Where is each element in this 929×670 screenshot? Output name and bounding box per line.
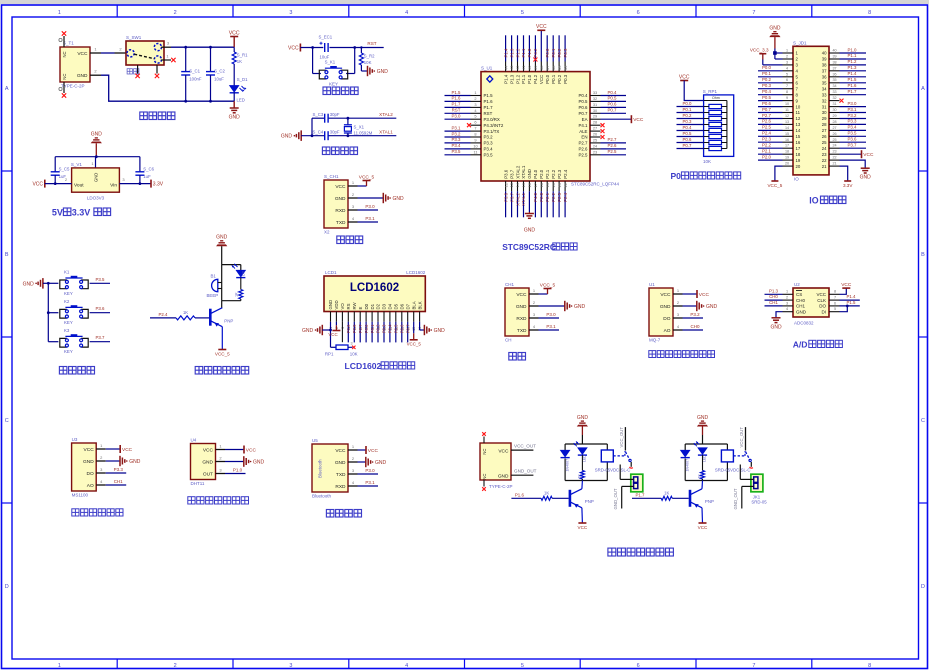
svg-text:3: 3 [289, 10, 292, 16]
svg-text:P0.0: P0.0 [364, 324, 369, 333]
svg-text:36: 36 [551, 66, 556, 70]
pin JD1.12 stub [783, 114, 794, 119]
pin U2.7 CLK wire net P1.4 [829, 294, 860, 300]
svg-text:5: 5 [834, 307, 836, 311]
pin LCD1.3 VO [340, 303, 345, 329]
pin U2.2 CH0 wire net CH0 [765, 294, 794, 300]
ground GND io pin22 [840, 160, 872, 181]
svg-text:B: B [921, 252, 925, 258]
wire net P1.1 io right [840, 53, 867, 59]
svg-text:P3.6: P3.6 [95, 306, 105, 311]
pin U1.40 P1.0 top [527, 35, 532, 84]
power VCC ldo input [32, 180, 44, 188]
svg-text:S_RP1: S_RP1 [703, 89, 718, 94]
svg-text:P1.0: P1.0 [527, 48, 532, 57]
no-ERC mark P4.2 [533, 58, 537, 62]
svg-text:P0.0: P0.0 [762, 65, 772, 70]
svg-text:32: 32 [832, 96, 836, 100]
pin JD1.18 stub [783, 150, 794, 155]
wire net P2.4 io left [758, 131, 783, 137]
svg-text:29: 29 [832, 114, 836, 118]
svg-text:XTAL2: XTAL2 [515, 165, 520, 179]
svg-text:LCD1602: LCD1602 [406, 270, 426, 275]
svg-text:RST: RST [452, 108, 461, 113]
pin U1.35 P0.2 top [557, 35, 562, 84]
svg-text:P0.1: P0.1 [682, 107, 692, 112]
svg-text:P4.1: P4.1 [578, 123, 588, 128]
svg-text:P2.0: P2.0 [539, 169, 544, 179]
wire net P0.5 to RP1 [677, 131, 704, 137]
relay contact and VCC_OUT [613, 427, 633, 469]
svg-text:P1.3: P1.3 [509, 74, 514, 84]
capacitor S_C1 100nF [181, 47, 202, 101]
svg-text:25: 25 [832, 138, 836, 142]
svg-text:P3.3: P3.3 [451, 137, 461, 142]
wire net P0.7 io left [758, 107, 783, 113]
svg-text:P2.7: P2.7 [358, 324, 363, 333]
wire net P2.2 io left [758, 143, 783, 149]
regulator S_V1 LDO3V3 [71, 162, 119, 201]
svg-text:8: 8 [868, 10, 871, 16]
svg-text:VCC: VCC [246, 448, 257, 454]
svg-text:DO: DO [819, 304, 826, 309]
pin JD1.35 stub [829, 78, 840, 83]
svg-text:S_C3: S_C3 [313, 112, 324, 117]
pin U1.22 P2.4 bottom [563, 169, 568, 217]
svg-text:P0.1: P0.1 [551, 48, 556, 57]
pin U1.31 P0.6 [578, 102, 626, 110]
svg-text:39: 39 [822, 57, 827, 62]
wire crystal bottom rail XTAL1 [301, 129, 396, 137]
svg-text:P2.5: P2.5 [607, 149, 617, 154]
svg-text:VCC: VCC [536, 24, 547, 30]
svg-text:2: 2 [474, 96, 476, 101]
svg-text:Vout: Vout [74, 182, 84, 188]
svg-text:CH1: CH1 [796, 304, 805, 309]
svg-text:P3.4: P3.4 [484, 147, 494, 152]
svg-text:LED: LED [237, 98, 245, 103]
svg-text:3.3V: 3.3V [72, 208, 91, 218]
svg-text:6: 6 [637, 663, 640, 669]
svg-text:P1.2: P1.2 [515, 74, 520, 84]
svg-text:1N4007: 1N4007 [566, 459, 570, 472]
svg-text:6: 6 [834, 301, 836, 305]
svg-text:P0.3: P0.3 [563, 48, 568, 57]
svg-text:XTAL1: XTAL1 [379, 129, 393, 134]
svg-text:DO: DO [86, 471, 93, 477]
svg-text:VCC: VCC [660, 292, 671, 298]
svg-text:K1: K1 [64, 270, 70, 275]
svg-text:B1: B1 [211, 273, 217, 278]
title relay control circuit [608, 548, 674, 556]
svg-text:25: 25 [822, 140, 827, 145]
svg-text:P4.2: P4.2 [533, 74, 538, 84]
svg-text:LDO3V3: LDO3V3 [87, 196, 105, 201]
power VCC lcd pin2 [328, 322, 340, 337]
svg-text:P3.3: P3.3 [484, 141, 494, 146]
pin JD1.19 stub [783, 156, 794, 161]
svg-text:PNP: PNP [585, 499, 594, 504]
svg-text:RW: RW [352, 301, 357, 309]
pin JD1.37 stub [829, 66, 840, 71]
svg-text:21: 21 [822, 164, 827, 169]
svg-text:S_D1: S_D1 [237, 77, 248, 82]
svg-text:P0.6: P0.6 [682, 137, 692, 142]
pin LCD1.5 RW [352, 301, 357, 342]
svg-text:33: 33 [822, 92, 827, 97]
svg-text:13: 13 [509, 183, 514, 187]
pin LCD1.16 BLK [417, 301, 422, 331]
svg-text:1K: 1K [698, 474, 702, 479]
svg-text:P1.4: P1.4 [503, 48, 508, 57]
svg-text:SRD-05VDC-SL-C: SRD-05VDC-SL-C [715, 467, 751, 472]
svg-text:IO: IO [809, 196, 818, 206]
svg-text:P2.3: P2.3 [557, 192, 562, 201]
svg-text:7: 7 [474, 126, 476, 131]
svg-text:30pF: 30pF [330, 112, 340, 117]
svg-text:P2.2: P2.2 [551, 192, 556, 201]
svg-text:P3.1: P3.1 [546, 324, 556, 329]
svg-text:D5: D5 [394, 303, 399, 309]
svg-text:13: 13 [796, 122, 801, 127]
wire net P1.5 io right [840, 77, 867, 83]
pin LCD1.14 D7 [405, 303, 410, 342]
pin LCD1.15 BLA [411, 301, 416, 331]
wire net P0.3 to RP1 [677, 119, 704, 125]
svg-text:P1.5: P1.5 [451, 90, 461, 95]
svg-text:P0.0: P0.0 [545, 48, 550, 57]
svg-text:TXD: TXD [336, 220, 346, 226]
svg-text:VCC: VCC [863, 152, 874, 158]
svg-text:VCC: VCC [816, 292, 826, 297]
svg-text:10: 10 [796, 104, 801, 109]
svg-text:19: 19 [796, 158, 801, 163]
wire net P1.2 io right [840, 59, 867, 65]
svg-text:VCC_OUT: VCC_OUT [739, 427, 744, 448]
pin JD1.17 stub [783, 144, 794, 149]
wire net P0.7 to RP1 [677, 143, 704, 149]
svg-text:S_R1: S_R1 [237, 53, 248, 58]
svg-text:RST: RST [367, 41, 376, 46]
svg-text:19: 19 [545, 183, 550, 187]
svg-text:4: 4 [405, 10, 408, 16]
title LCD1602 display module [345, 361, 415, 371]
pin U1.15 XTAL1 bottom [521, 165, 526, 217]
svg-text:GND: GND [434, 328, 446, 334]
svg-text:RP1: RP1 [325, 352, 334, 357]
pin LCD1.6 E [358, 307, 363, 343]
wire Vin pin to 3.3V [119, 177, 151, 185]
svg-text:STC89C52RC_LQFP44: STC89C52RC_LQFP44 [571, 181, 620, 186]
svg-text:GND: GND [253, 460, 265, 466]
svg-text:10K: 10K [364, 60, 372, 65]
pin JD1.40 stub [829, 49, 840, 54]
wire net P2.7 io left [758, 113, 783, 119]
ground GND lcd left / pot wiring [302, 322, 336, 348]
wire net P0.0 io left [758, 65, 783, 71]
svg-text:P1.4: P1.4 [503, 74, 508, 84]
svg-text:S_EC1: S_EC1 [319, 35, 333, 40]
svg-text:3.3V: 3.3V [843, 183, 853, 188]
pin U2.1 CS wire net P1.3 [765, 288, 794, 294]
pin U1.41 P1.1 top [521, 35, 526, 84]
wire net P0.3 io left [758, 83, 783, 89]
svg-text:P2.6: P2.6 [607, 143, 617, 148]
svg-text:17: 17 [533, 183, 538, 187]
svg-text:D6: D6 [400, 303, 405, 309]
wire net P1.7 to base [632, 491, 689, 501]
power VCC relay emitter [698, 523, 708, 530]
pin U1.10 P3.4 [445, 143, 494, 151]
svg-text:VCC_5: VCC_5 [215, 352, 230, 357]
svg-text:S_X1: S_X1 [354, 125, 365, 130]
svg-text:GND: GND [660, 304, 671, 310]
svg-text:CH0: CH0 [769, 294, 778, 299]
potentiometer RP1 10K [325, 322, 358, 357]
svg-text:Bluetooth: Bluetooth [318, 459, 323, 478]
svg-text:STC89C52RC: STC89C52RC [502, 242, 556, 252]
pin JD1.21 stub [829, 162, 840, 167]
svg-text:U3: U3 [72, 437, 78, 442]
svg-text:CH1: CH1 [505, 282, 514, 287]
svg-text:VCC: VCC [335, 184, 346, 190]
pin U2.6 DO wire net P1.5 [829, 300, 860, 307]
title power circuit [140, 112, 175, 120]
ground GND mcu [524, 212, 536, 234]
svg-text:5: 5 [521, 10, 524, 16]
transistor Q PNP relay [690, 481, 714, 524]
capacitor S_C2 10uF [206, 47, 225, 101]
pin LCD1.12 D5 [394, 303, 399, 342]
pin U1.32 P0.5 [578, 96, 626, 104]
svg-text:21: 21 [832, 162, 836, 166]
wire net P0.0 to RP1 [677, 101, 704, 107]
svg-text:DO: DO [663, 316, 670, 322]
svg-text:VCC_OUT: VCC_OUT [619, 427, 624, 448]
pin U1.29 EA [582, 114, 644, 124]
capacitor S_C3 30pF [313, 112, 340, 123]
pin LCD1.10 D3 [382, 303, 387, 342]
svg-text:GND_OUT: GND_OUT [733, 488, 738, 509]
svg-text:GND: GND [129, 459, 141, 465]
svg-text:28: 28 [593, 120, 597, 125]
svg-text:P1.2: P1.2 [515, 48, 520, 57]
svg-text:BEEP: BEEP [207, 293, 219, 298]
svg-text:VO: VO [340, 303, 345, 310]
svg-text:S_C6: S_C6 [143, 166, 154, 171]
svg-text:15: 15 [796, 134, 801, 139]
connector T2 TYPE-C-2P relay [480, 443, 513, 489]
svg-text:P3.7: P3.7 [847, 143, 857, 148]
buzzer B1 BEEP [207, 273, 222, 298]
svg-text:KEY: KEY [329, 81, 338, 86]
svg-text:11: 11 [796, 110, 801, 115]
svg-text:P4.3/INT2: P4.3/INT2 [484, 123, 504, 128]
svg-text:LCD1602: LCD1602 [345, 361, 382, 371]
svg-text:KEY: KEY [64, 291, 73, 296]
svg-text:23: 23 [822, 152, 827, 157]
svg-text:P1.3: P1.3 [847, 65, 857, 70]
svg-text:38: 38 [832, 60, 836, 64]
IC U5 Bluetooth module [312, 438, 348, 499]
pin U1.23 P2.5 [578, 149, 626, 157]
pin U1.14 XTAL2 bottom [515, 165, 520, 217]
svg-text:P4.0: P4.0 [533, 169, 538, 179]
svg-text:NC: NC [62, 51, 67, 57]
ground GND reset [361, 66, 388, 76]
svg-text:P0.6: P0.6 [578, 105, 588, 110]
title IO expansion port [809, 196, 846, 206]
svg-text:3.3V: 3.3V [153, 182, 164, 188]
svg-text:K2: K2 [64, 299, 70, 304]
wire reset top rail with net RST [300, 41, 383, 49]
svg-text:GND: GND [706, 304, 718, 310]
svg-text:VCC: VCC [288, 46, 299, 52]
ground GND io top [769, 26, 782, 60]
svg-text:P1.2: P1.2 [847, 59, 857, 64]
relay coil SRD-05VDC-SL-C [595, 450, 631, 472]
title P0 pull-up resistor circuit [671, 171, 741, 181]
svg-text:8: 8 [474, 132, 476, 137]
svg-text:P2.2: P2.2 [762, 143, 772, 148]
svg-text:40: 40 [832, 49, 836, 53]
svg-text:P0.5: P0.5 [762, 95, 772, 100]
pin U1.9 P3.3 [445, 137, 494, 145]
svg-text:CH1: CH1 [114, 479, 123, 484]
svg-text:4: 4 [405, 663, 408, 669]
wire net P3.0 io right [840, 101, 867, 107]
wire net P2.5 io left [758, 125, 783, 131]
svg-text:P2.5: P2.5 [762, 125, 772, 130]
pin JD1.3 stub [783, 60, 794, 65]
svg-text:EA: EA [582, 117, 588, 122]
svg-text:U4: U4 [191, 438, 197, 443]
svg-text:18: 18 [785, 150, 789, 154]
svg-text:15: 15 [785, 132, 789, 136]
svg-text:CH0: CH0 [690, 324, 699, 329]
svg-text:36: 36 [832, 72, 836, 76]
svg-text:16: 16 [796, 140, 801, 145]
svg-text:GND: GND [860, 175, 872, 181]
svg-text:13: 13 [785, 120, 789, 124]
pin JD1.11 stub [783, 108, 794, 113]
svg-text:P4.0: P4.0 [533, 192, 538, 201]
svg-text:GND: GND [202, 460, 213, 466]
svg-text:P0.1: P0.1 [762, 71, 772, 76]
svg-text:P3.4: P3.4 [847, 125, 857, 130]
svg-text:S_CH1: S_CH1 [324, 174, 339, 179]
svg-text:S_JD1: S_JD1 [793, 40, 807, 45]
svg-text:P0.1: P0.1 [370, 324, 375, 333]
svg-text:P1.3: P1.3 [769, 288, 779, 293]
svg-text:1uF: 1uF [143, 174, 151, 179]
pin JD1.39 stub [829, 55, 840, 60]
svg-text:S_C5: S_C5 [59, 166, 70, 171]
svg-text:18: 18 [796, 152, 801, 157]
pin T1 NC bottom with no-ERC [59, 82, 66, 98]
pin JD1.9 stub [783, 96, 794, 101]
pin U1.24 P2.6 [578, 143, 626, 151]
wire ldo top rail [55, 155, 140, 168]
pin T2 NC bottom no-ERC [482, 480, 486, 491]
pin U1.13 P3.7 bottom [509, 169, 514, 217]
svg-text:P0.2: P0.2 [682, 113, 692, 118]
svg-text:P3.2: P3.2 [451, 131, 461, 136]
svg-text:VCC: VCC [335, 448, 346, 454]
svg-text:DHT11: DHT11 [191, 481, 205, 486]
pin JD1.22 stub [829, 156, 840, 161]
svg-text:PNP: PNP [705, 499, 714, 504]
resistor R alarm [235, 278, 243, 301]
svg-text:P0.0: P0.0 [545, 74, 550, 84]
svg-text:XTAL1: XTAL1 [521, 165, 526, 179]
svg-text:P0.7: P0.7 [762, 107, 772, 112]
pin U2.4 GND to ground [770, 307, 793, 330]
svg-text:34: 34 [822, 86, 827, 91]
svg-text:P0.4: P0.4 [388, 324, 393, 333]
svg-text:P3.5: P3.5 [451, 149, 461, 154]
svg-text:P2.7: P2.7 [607, 137, 617, 142]
title temperature humidity module [188, 497, 249, 504]
pin JD1.26 stub [829, 132, 840, 137]
svg-text:GND: GND [498, 474, 509, 480]
svg-text:7: 7 [752, 663, 755, 669]
relay channel 2 [632, 415, 767, 530]
svg-text:RS: RS [346, 303, 351, 309]
svg-text:K3: K3 [64, 328, 70, 333]
wire keys gnd bus [47, 282, 50, 342]
svg-text:VCC_5: VCC_5 [540, 282, 556, 288]
wire net P3.7 io right [840, 143, 867, 149]
svg-text:P1.0: P1.0 [847, 47, 857, 52]
pin U1.16 GND bottom [527, 169, 532, 212]
wire net P2.4 to base [150, 310, 209, 320]
svg-text:11: 11 [785, 108, 789, 112]
svg-text:P2.5: P2.5 [352, 324, 357, 333]
svg-text:33: 33 [832, 90, 836, 94]
pin U1.1 P1.5 [445, 90, 494, 98]
svg-text:6: 6 [637, 10, 640, 16]
svg-text:MS1100: MS1100 [72, 493, 89, 498]
pin U1.43 P1.3 top [509, 35, 514, 84]
svg-text:29: 29 [822, 116, 827, 121]
svg-text:A/D: A/D [793, 340, 808, 350]
svg-text:OUT: OUT [203, 472, 213, 478]
svg-text:KEY: KEY [64, 320, 73, 325]
svg-text:P0.7: P0.7 [607, 108, 617, 113]
svg-text:GND: GND [796, 310, 807, 315]
svg-text:GND: GND [229, 115, 241, 121]
pin U1.37 P0.0 top [545, 35, 550, 84]
key S_K1 KEY [313, 48, 355, 87]
svg-text:25: 25 [593, 137, 597, 142]
connector S_CH1 download port X2 [324, 174, 348, 235]
svg-text:P1.0: P1.0 [527, 74, 532, 84]
svg-text:ALE: ALE [579, 129, 587, 134]
pin U2.3 CH1 wire net CH1 [765, 300, 794, 306]
svg-text:P1.7: P1.7 [847, 89, 857, 94]
wire net P3.1 io right [840, 107, 867, 113]
svg-text:VCC: VCC [699, 292, 710, 298]
wire net P1.3 io right [840, 65, 867, 71]
relay channel 1 [511, 415, 642, 530]
svg-text:39: 39 [832, 55, 836, 59]
svg-text:VDD: VDD [334, 300, 339, 309]
svg-text:D4: D4 [388, 303, 393, 309]
svg-text:P0.6: P0.6 [400, 324, 405, 333]
svg-text:D: D [5, 584, 9, 590]
pin LCD1.4 RS [346, 303, 351, 342]
